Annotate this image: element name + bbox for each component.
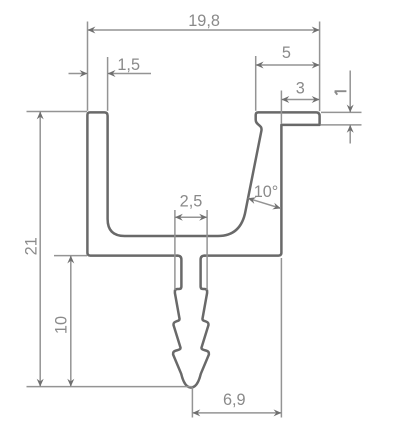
svg-text:5: 5 — [282, 44, 291, 62]
arrowhead 21 bottom — [37, 379, 44, 387]
dimension line 3 — [281, 99, 319, 101]
extension line stem right (2,5) — [206, 210, 208, 290]
dimension line angle 10 — [248, 198, 281, 208]
extension line left wall inner (1,5) — [107, 57, 109, 111]
arrowhead 21 top — [37, 112, 44, 120]
arrowhead 1 top — [347, 105, 354, 113]
extension line stem left (2,5) — [174, 210, 176, 290]
dimension line 21 — [39, 112, 41, 387]
svg-text:2,5: 2,5 — [180, 192, 203, 210]
extension line right flange edge (19,8 / 5 / 3) — [319, 22, 321, 112]
dimension line 6,9 — [192, 412, 281, 414]
profile outline (channel body with top flange) — [87, 112, 319, 255]
arrowhead 1,5 left — [80, 70, 88, 77]
dimension line 1 lower segment — [349, 125, 351, 144]
svg-text:3: 3 — [296, 79, 305, 97]
arrowhead 3 right — [312, 96, 320, 103]
dimension line 19,8 — [88, 29, 320, 31]
arrowhead 19,8 right — [312, 27, 320, 34]
svg-text:19,8: 19,8 — [188, 12, 220, 30]
label 1 — [335, 91, 347, 95]
arrowhead 2,5 left — [175, 214, 183, 221]
arrowhead 1 bottom — [347, 125, 354, 133]
dimension line 1 upper segment — [349, 71, 351, 113]
svg-text:21: 21 — [23, 237, 41, 255]
svg-text:10: 10 — [53, 316, 71, 334]
extension line top left (21) — [27, 111, 88, 113]
arrowhead 6,9 left — [192, 409, 200, 416]
svg-text:1,5: 1,5 — [117, 56, 140, 74]
arrowhead 5 left — [256, 62, 264, 69]
extension line slab right (6,9) — [280, 258, 282, 418]
extension line left wall outer (19,8 / 1,5) — [87, 22, 89, 111]
dimension line 5 — [256, 64, 320, 66]
dimension line 1,5 right segment — [108, 73, 151, 75]
extension line flange bottom right (1) — [321, 124, 362, 126]
barbed stem left half — [173, 256, 191, 388]
extension line slab bottom left (10) — [54, 255, 87, 257]
svg-text:10°: 10° — [254, 183, 279, 201]
arrowhead 2,5 right — [199, 214, 207, 221]
arrowhead 1,5 right — [108, 70, 116, 77]
arrowhead 10 top — [67, 256, 74, 264]
arrowhead angle left — [248, 197, 257, 204]
extension line wall right edge (3) — [280, 91, 282, 125]
arrowhead 3 left — [281, 96, 289, 103]
extension line flange top right (1) — [321, 111, 362, 113]
arrowhead angle right — [272, 203, 281, 210]
arrowhead 5 right — [312, 62, 320, 69]
dimension line 2,5 — [175, 216, 207, 218]
barbed stem right half — [191, 256, 209, 388]
extension line stem tip (6,9) — [191, 387, 193, 417]
dimension line 10 — [70, 256, 72, 387]
arrowhead 19,8 left — [88, 27, 96, 34]
extension line flange left (5) — [255, 56, 257, 111]
svg-text:6,9: 6,9 — [223, 391, 246, 409]
arrowhead 6,9 right — [274, 409, 282, 416]
arrowhead 10 bottom — [67, 379, 74, 387]
extension line bottom tip (21 / 10) — [27, 386, 193, 388]
dimension line 1,5 left segment — [69, 73, 88, 75]
